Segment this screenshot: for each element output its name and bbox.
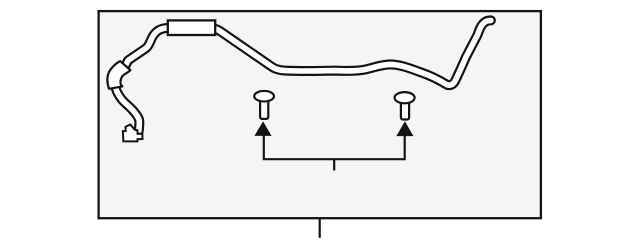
arrow under bolt B2 (397, 122, 412, 135)
bolt B2 head (395, 92, 415, 103)
bolt B1 head (254, 91, 274, 102)
elbow sleeve piece (107, 61, 130, 89)
bolt B1 shank (260, 97, 268, 119)
hose tube outer outline (114, 20, 491, 131)
bracket center tick (333, 159, 335, 170)
stepped connector fitting at hose end (123, 125, 143, 142)
bolt B2 shank (401, 98, 409, 120)
inline sleeve block on tube (168, 20, 215, 35)
bracket connecting arrows (264, 135, 405, 160)
diagram border box (99, 11, 541, 218)
arrow under bolt B1 (255, 122, 270, 135)
callout tick below box (319, 219, 321, 238)
hose tube white core (114, 20, 491, 131)
